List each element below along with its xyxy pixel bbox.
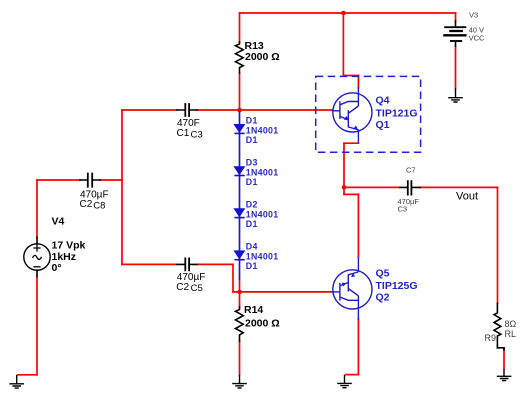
svg-text:D1: D1 xyxy=(246,135,258,145)
svg-text:TIP125G: TIP125G xyxy=(376,280,418,292)
svg-text:V4: V4 xyxy=(52,216,65,228)
svg-text:17 Vpk: 17 Vpk xyxy=(52,240,86,252)
svg-text:C7: C7 xyxy=(406,166,416,175)
svg-text:C3: C3 xyxy=(191,129,203,140)
svg-text:C2: C2 xyxy=(80,199,93,210)
svg-text:0°: 0° xyxy=(52,262,62,274)
svg-text:R9: R9 xyxy=(485,333,497,343)
svg-text:Q2: Q2 xyxy=(376,292,390,304)
svg-text:C5: C5 xyxy=(191,283,203,294)
svg-text:D1: D1 xyxy=(246,219,258,229)
svg-text:8Ω: 8Ω xyxy=(505,319,517,329)
svg-text:C1: C1 xyxy=(177,128,190,139)
svg-text:R13: R13 xyxy=(245,40,264,52)
svg-text:V3: V3 xyxy=(469,11,478,20)
svg-text:D2: D2 xyxy=(246,200,258,210)
svg-text:TIP121G: TIP121G xyxy=(376,108,418,120)
svg-text:D1: D1 xyxy=(246,261,258,271)
svg-text:1N4001: 1N4001 xyxy=(246,168,279,178)
svg-text:1N4001: 1N4001 xyxy=(246,125,279,135)
svg-text:D1: D1 xyxy=(246,115,258,125)
svg-text:D3: D3 xyxy=(246,158,258,168)
svg-text:1N4001: 1N4001 xyxy=(246,252,279,262)
svg-text:D1: D1 xyxy=(246,177,258,187)
svg-text:R14: R14 xyxy=(244,304,263,316)
svg-text:C2: C2 xyxy=(176,282,189,293)
svg-text:C8: C8 xyxy=(93,201,105,212)
svg-text:D4: D4 xyxy=(246,242,258,252)
svg-text:RL: RL xyxy=(505,329,517,339)
svg-text:Q1: Q1 xyxy=(376,119,390,131)
svg-text:2000 Ω: 2000 Ω xyxy=(245,51,280,63)
svg-text:C3: C3 xyxy=(398,205,408,214)
svg-text:2000 Ω: 2000 Ω xyxy=(245,318,280,330)
svg-text:VCC: VCC xyxy=(469,34,485,43)
svg-text:Vout: Vout xyxy=(456,191,478,203)
svg-text:Q5: Q5 xyxy=(376,268,390,280)
svg-text:1N4001: 1N4001 xyxy=(246,210,279,220)
svg-text:Q4: Q4 xyxy=(376,95,390,107)
